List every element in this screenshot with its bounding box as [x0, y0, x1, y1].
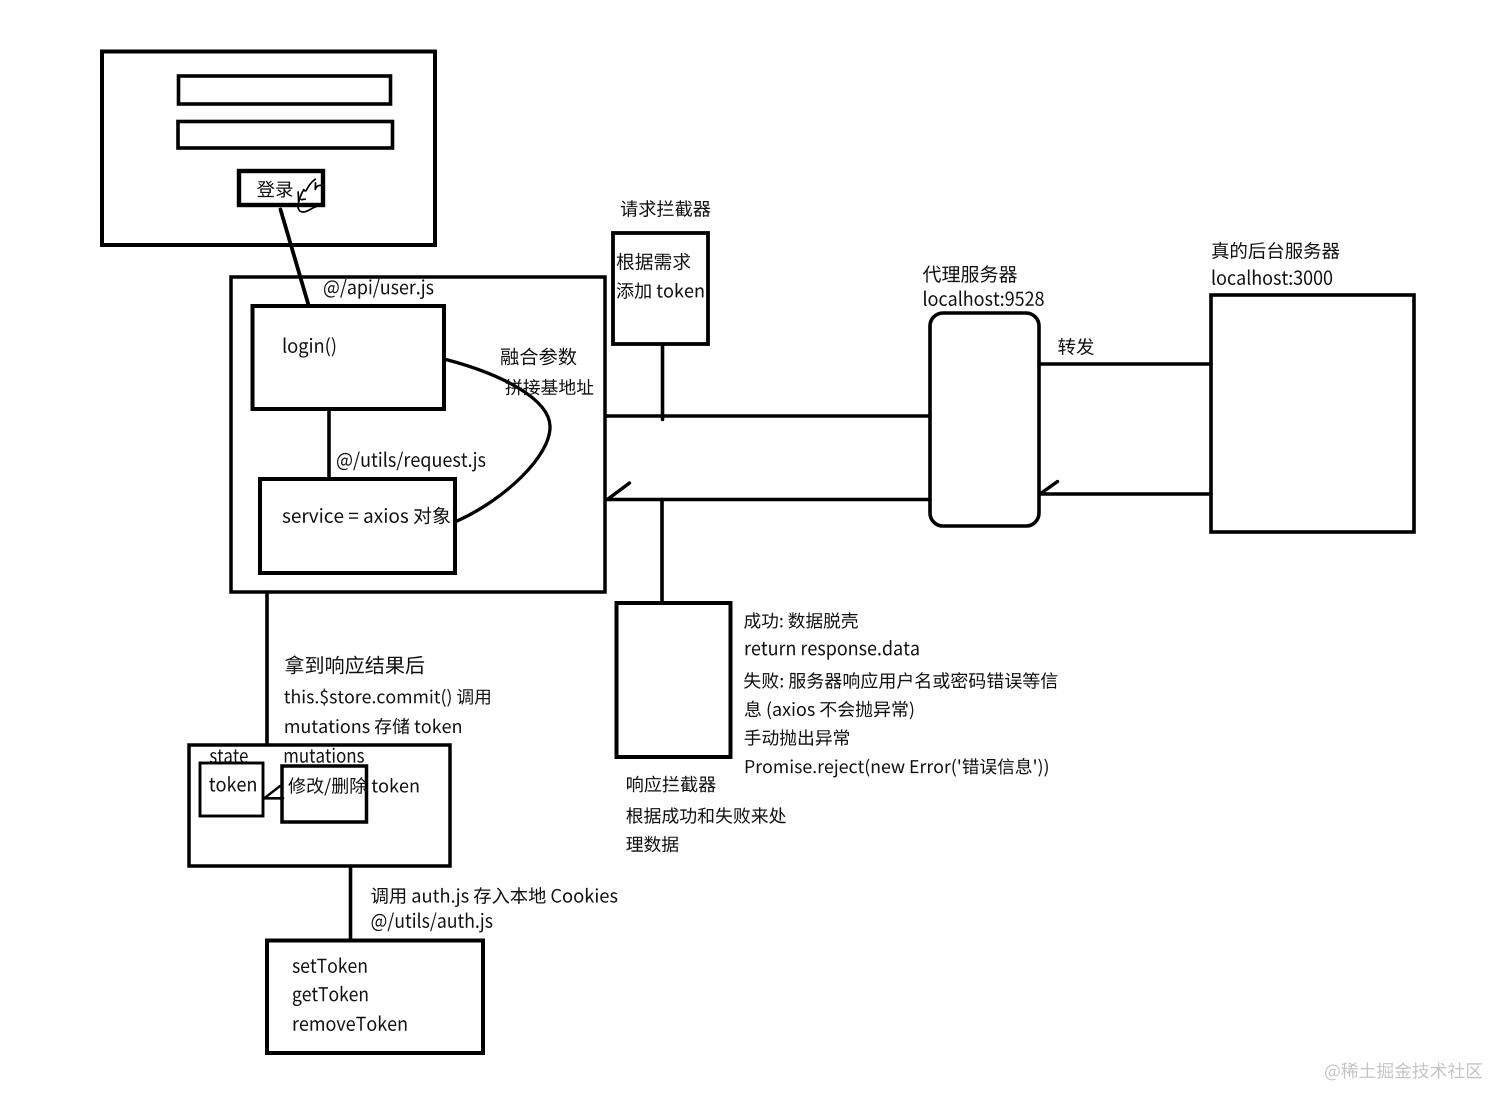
- wire: return line proxy to module box: [607, 498, 930, 502]
- icon: cursor bottom loop stroke: [298, 206, 318, 212]
- label: service = axios 对象: [283, 507, 451, 525]
- label: 真的后台服务器: [1212, 242, 1339, 259]
- box: login() function: [253, 306, 445, 409]
- label: 根据需求: [617, 253, 691, 270]
- box: auth.js helpers: [267, 941, 483, 1054]
- box: request interceptor: [613, 233, 708, 344]
- label: 添加 token: [617, 282, 704, 299]
- label: 理数据: [626, 836, 678, 853]
- label: token: [209, 776, 256, 792]
- label: 手动抛出异常: [745, 729, 849, 745]
- wire: login() box to service box: [327, 409, 331, 479]
- icon: cursor flag stroke: [315, 183, 321, 190]
- label: @/utils/request.js: [337, 452, 485, 472]
- wire: curved arc (merge params / base url): [444, 359, 550, 521]
- box: service = axios object: [260, 479, 455, 573]
- box: browser login form window: [102, 52, 435, 246]
- box: response interceptor: [617, 603, 731, 757]
- box: token (state): [200, 763, 263, 816]
- wire: module box down to vuex box: [265, 592, 269, 745]
- label: 拼接基地址: [506, 379, 594, 395]
- box: real backend server: [1211, 295, 1414, 532]
- wire: arrowhead barb at module box: [608, 483, 630, 499]
- label: 请求拦截器: [621, 200, 711, 217]
- icon: hand-drawn cursor stroke (rising zigzag): [299, 179, 315, 201]
- label: getToken: [293, 986, 368, 1006]
- box: login button: [239, 171, 323, 205]
- label: Promise.reject(...): [746, 758, 1048, 777]
- label: @/utils/auth.js: [372, 913, 493, 933]
- label: 息 (axios 不会抛异常): [745, 701, 914, 720]
- label: 融合参数: [501, 348, 577, 366]
- label: 调用 auth.js 存入本地 Cookies: [371, 887, 617, 907]
- label: 修改/删除 token: [288, 777, 418, 796]
- icon: cursor small horizontal dash: [301, 198, 305, 200]
- box: mutation 修改/删除 token: [282, 766, 367, 822]
- wire: arrowhead barb mutation arrow: [264, 786, 280, 798]
- wire: interceptor box down to request line: [661, 344, 665, 420]
- label: return response.data: [746, 640, 919, 660]
- label: 代理服务器: [923, 265, 1017, 283]
- label: removeToken: [294, 1016, 407, 1032]
- wire: arrow mutation to token: [264, 797, 283, 800]
- label: mutations: [285, 748, 364, 763]
- label: mutations 存储 token: [286, 718, 462, 735]
- label: 转发: [1058, 338, 1094, 355]
- label: 拿到响应结果后: [285, 655, 424, 674]
- label: localhost:3000: [1213, 270, 1333, 286]
- label: setToken: [293, 958, 367, 974]
- label: 登录 (login button text): [257, 181, 293, 198]
- wire: login button to login() box: [281, 210, 309, 306]
- box: username input field: [179, 76, 391, 104]
- wire: return line backend to proxy: [1040, 492, 1211, 496]
- box: password input field: [178, 122, 393, 149]
- box: vuex store (state | mutations): [189, 745, 450, 866]
- wire: request line module box to proxy server: [605, 414, 930, 418]
- label: 失败: 服务器响应...: [744, 672, 1057, 689]
- label: login(): [284, 337, 336, 358]
- label: @/api/user.js: [324, 279, 433, 299]
- label: localhost:9528: [924, 291, 1044, 307]
- box: proxy server (rounded): [930, 313, 1039, 526]
- wire: forward line proxy to backend: [1039, 362, 1211, 366]
- wire: arrowhead barb at proxy: [1040, 482, 1058, 495]
- icon: cursor small vertical tick: [297, 192, 299, 202]
- label: watermark @稀土掘金技术社区: [1325, 1062, 1482, 1080]
- label: state: [210, 749, 248, 763]
- wire: vuex box down to auth.js box: [349, 866, 353, 941]
- label: this.$store.commit() 调用: [284, 689, 490, 707]
- label: 成功: 数据脱壳: [744, 612, 858, 628]
- box: module container @/api/user.js: [231, 277, 605, 592]
- wire: down to response interceptor box: [660, 500, 664, 604]
- label: 响应拦截器: [627, 776, 716, 793]
- label: 根据成功和失败来处: [626, 807, 786, 824]
